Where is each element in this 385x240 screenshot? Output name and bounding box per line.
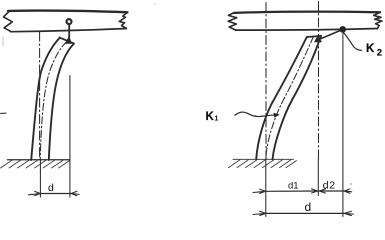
svg-text:K: K: [206, 111, 215, 123]
right pin link bar: [321, 30, 342, 39]
right ceiling bottom line: [236, 29, 378, 31]
left column top cap: [60, 38, 74, 44]
right ground line: [233, 158, 294, 160]
K1 arrowhead: [274, 113, 280, 118]
svg-text:d: d: [48, 182, 54, 194]
left ground hatching: [1, 160, 71, 168]
right vertical dash-dot reference line B (x=318.5): [318, 2, 320, 160]
d1 right arrowhead: [312, 189, 318, 193]
svg-text:d: d: [305, 200, 312, 214]
left dimension extension line (left, below ground): [39, 160, 41, 198]
spring stiffness label K1: [206, 111, 219, 123]
scan artifact dot: [350, 183, 352, 185]
right d right outside arrow: [344, 211, 353, 215]
left ground line: [8, 159, 71, 161]
K2 leader line: [343, 32, 361, 50]
d1 left outside arrow: [253, 189, 266, 193]
right ground hatching: [229, 160, 297, 168]
right ceiling top line: [234, 12, 380, 13]
right column centerline dash-dot: [266, 36, 314, 159]
right extension line C from pin: [342, 32, 344, 217]
dimension line d2: [318, 190, 344, 192]
left dimension line d: [41, 193, 71, 195]
d2 right outside arrow: [344, 189, 352, 193]
left ceiling top line: [8, 11, 127, 13]
right column left edge: [256, 37, 307, 159]
left dimension left outside arrow: [29, 191, 41, 195]
right extension line B below ground: [317, 159, 319, 196]
left pin attach triangle: [65, 36, 73, 44]
svg-text:2: 2: [377, 48, 382, 59]
svg-text:K: K: [366, 43, 375, 55]
svg-text:d2: d2: [323, 180, 336, 192]
dimension line d1: [266, 190, 318, 192]
scan artifact faint dot top: [154, 3, 156, 5]
left dimension extension line (right): [69, 76, 71, 198]
scan artifact dash at left edge: [0, 112, 6, 114]
left dimension right outside arrow: [71, 191, 79, 195]
left column centerline dash-dot: [40, 42, 67, 160]
svg-text:d1: d1: [288, 181, 299, 192]
K1 leader line: [235, 112, 276, 117]
left vertical dash-dot reference line: [39, 32, 41, 160]
left pin circle: [67, 19, 72, 24]
left column right edge: [49, 44, 74, 160]
right pin attach triangle: [314, 35, 322, 42]
left ceiling left break zigzag: [4, 11, 13, 32]
right column right edge: [273, 36, 322, 160]
right extension line A below ground: [265, 160, 267, 217]
right ceiling right break zigzag: [374, 12, 382, 28]
left pin stem: [68, 24, 70, 41]
right column top cap: [307, 36, 321, 37]
scan artifact faint smudge upper left: [2, 37, 4, 45]
right pin circle (filled): [340, 27, 346, 33]
d2 left arrowhead: [319, 189, 325, 193]
left ceiling bottom line: [11, 29, 127, 32]
dimension line d (right figure): [266, 212, 344, 214]
left ceiling right break zigzag: [119, 12, 127, 28]
spring stiffness label K2: [366, 43, 382, 59]
right d left outside arrow: [253, 211, 266, 215]
right ceiling left break zigzag: [228, 13, 237, 30]
left column left edge: [31, 38, 60, 160]
right vertical dash-dot reference line A (x=266): [265, 3, 267, 160]
svg-text:1: 1: [215, 116, 219, 123]
